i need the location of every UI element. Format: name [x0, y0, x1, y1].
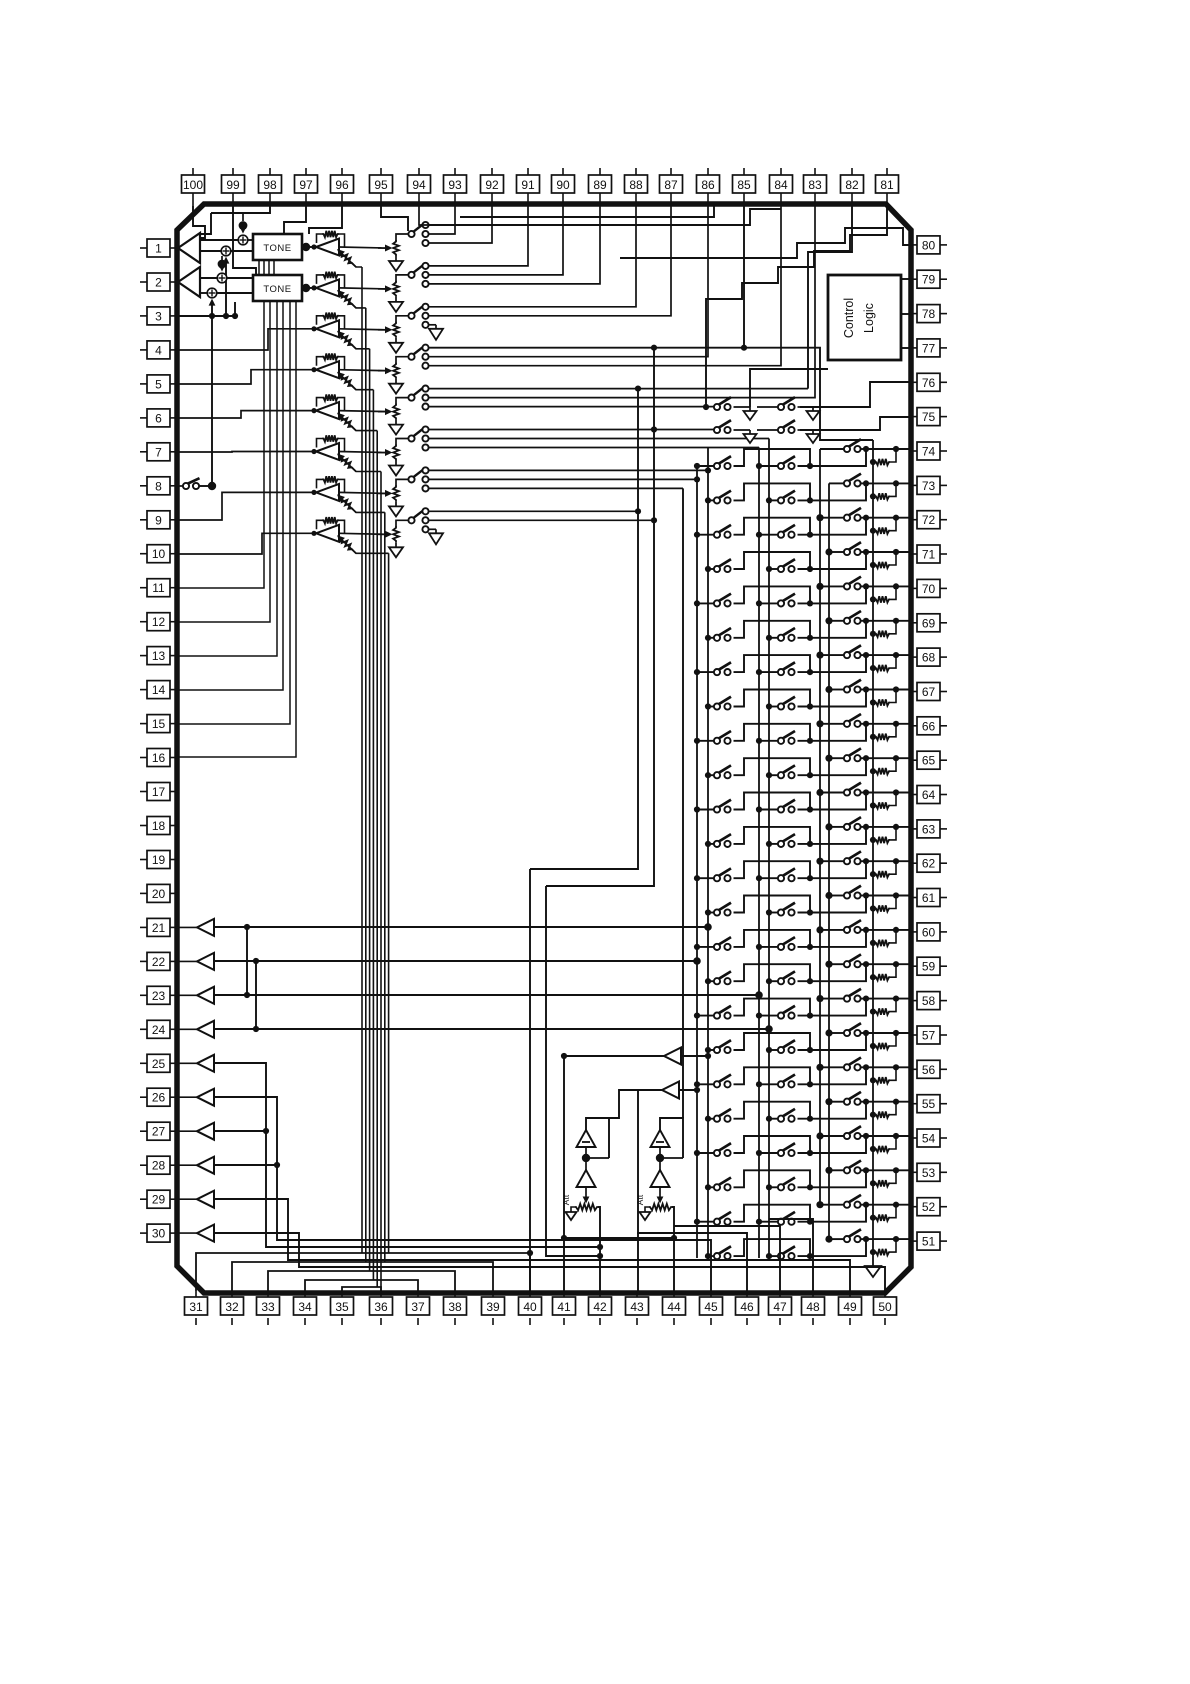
- junction col1/col2 row 63: [807, 841, 813, 847]
- svg-text:32: 32: [225, 1300, 239, 1314]
- wire col2 out row 63: [798, 827, 867, 844]
- switch col2 row 65: [778, 765, 795, 778]
- svg-text:2: 2: [155, 276, 162, 290]
- svg-text:5: 5: [155, 377, 162, 391]
- wire col2 out row 52: [798, 1205, 867, 1222]
- wire col3 out row 72: [861, 517, 867, 519]
- junction col1/col2 row 72: [807, 532, 813, 538]
- wire col3 left row 63: [829, 826, 844, 828]
- ground below pot strip 1: [389, 261, 403, 271]
- svg-text:62: 62: [922, 857, 936, 871]
- pin wire row 61: [866, 895, 909, 897]
- wire col2 out row 68: [798, 655, 867, 672]
- svg-text:77: 77: [922, 341, 936, 355]
- svg-text:74: 74: [922, 445, 936, 459]
- svg-text:21: 21: [152, 921, 166, 935]
- junction col3 bus row 54: [816, 1132, 823, 1139]
- strip 7 input junction: [311, 490, 316, 495]
- volume pot strip 8: [378, 520, 408, 547]
- selector strip 1: [408, 222, 428, 246]
- svg-text:86: 86: [701, 178, 715, 192]
- bus wire strip 1 drop: [361, 267, 363, 1253]
- junction col1/col2 row 67: [807, 703, 813, 709]
- svg-text:61: 61: [922, 891, 936, 905]
- bridge wire pin 31 to pin 40: [196, 1253, 530, 1291]
- matrix row 74 bus tap 2: [756, 463, 762, 469]
- wire col1 jog row 61: [734, 896, 811, 913]
- wire col3 out row 71: [861, 551, 867, 553]
- junction pin3/S4: [209, 313, 215, 319]
- wire bus to switch col2 row 53: [769, 1186, 778, 1188]
- junction resistor top row 74: [893, 446, 899, 452]
- pin wire row 72: [866, 517, 909, 519]
- wire col2 out row 69: [798, 621, 867, 638]
- wire strip 3 out: [339, 329, 385, 330]
- pin 3: [140, 307, 179, 325]
- matrix row 73 bus tap 1: [705, 497, 711, 503]
- pin wire row 58: [866, 998, 909, 1000]
- wire TONE1 out to strip 1: [302, 246, 316, 248]
- wire bus to switch col2 row 65: [769, 774, 778, 776]
- switch col2 row 54: [778, 1143, 795, 1156]
- svg-text:78: 78: [922, 307, 936, 321]
- wire col3 out row 53: [861, 1169, 867, 1171]
- wire strip2 contact a to pin 91: [429, 206, 528, 266]
- svg-text:3: 3: [155, 309, 162, 323]
- wire col3 out row 67: [861, 689, 867, 691]
- pin 67: [909, 683, 947, 701]
- switch col2 row 57: [778, 1040, 795, 1053]
- wire node V683 Att2 feed: [682, 488, 684, 1118]
- pin 10: [140, 545, 179, 563]
- junction col2/pin row 57: [863, 1030, 869, 1036]
- switch col3 row 54: [844, 1126, 861, 1139]
- wire col3 left row 72: [820, 517, 844, 519]
- svg-text:44: 44: [667, 1300, 681, 1314]
- junction pin24 riser: [253, 1026, 259, 1032]
- junction resistor top row 72: [893, 515, 899, 521]
- wire pin 15 tone control riser: [177, 301, 290, 724]
- wire pin95 to strip1 pole: [381, 206, 408, 231]
- junction col1/col2 row 68: [807, 669, 813, 675]
- pin wire row 62: [866, 860, 909, 862]
- pin 11: [140, 579, 179, 597]
- row T2 ground 1: [749, 430, 751, 434]
- wire bus to switch col1 row 61: [708, 912, 714, 914]
- pin 62: [909, 854, 947, 872]
- switch col1 row 58: [714, 1006, 731, 1019]
- wire col3 out row 58: [861, 998, 867, 1000]
- wire strip 4 out: [339, 370, 385, 371]
- svg-text:13: 13: [152, 649, 166, 663]
- wire col1 jog row 57: [734, 1033, 811, 1050]
- pin wire row 74: [866, 448, 909, 450]
- pin 59: [909, 957, 947, 975]
- pin 95: [370, 168, 393, 206]
- summing node S4: [207, 288, 217, 305]
- wire col1 jog row 58: [734, 999, 811, 1016]
- wire col3 left row 68: [820, 654, 844, 656]
- svg-text:76: 76: [922, 376, 936, 390]
- switch col3 row 62: [844, 851, 861, 864]
- switch col1 row 66: [714, 731, 731, 744]
- wire S4 bus to pin8 node: [211, 316, 213, 486]
- switch col2 row 59: [778, 971, 795, 984]
- row T1 switch 2: [778, 397, 813, 410]
- junction col3 bus row 61: [825, 892, 832, 899]
- wire pin input to strip 7: [177, 492, 314, 520]
- wire bus to switch col1 row 69: [708, 637, 714, 639]
- junction staircase/T1: [703, 404, 709, 410]
- bus wire strip 6 drop: [380, 472, 382, 1292]
- wire col3 left row 52: [820, 1204, 844, 1206]
- matrix row 73 bus tap 2: [766, 497, 772, 503]
- switch col1 row 74: [714, 456, 731, 469]
- pin 44: [663, 1291, 686, 1325]
- wire S1 to TONE1: [248, 239, 253, 241]
- wire col2 out row 64: [798, 793, 867, 810]
- pin 43: [626, 1291, 649, 1325]
- wire col1 jog row 59: [734, 964, 811, 981]
- junction col2/pin row 73: [863, 480, 869, 486]
- svg-text:50: 50: [878, 1300, 892, 1314]
- wire pin 21 to bus B: [214, 926, 708, 928]
- svg-text:87: 87: [664, 178, 678, 192]
- wire strip8 contact c to ground: [429, 528, 436, 530]
- junction resistor top row 69: [893, 618, 899, 624]
- wire Control Logic to pin 77: [901, 347, 909, 349]
- junction col1/col2 row 69: [807, 635, 813, 641]
- matrix row 51 bus tap 1: [705, 1253, 711, 1259]
- pin 47: [769, 1291, 792, 1325]
- wire bus to switch col2 row 58: [759, 1015, 778, 1017]
- wire col3 left row 62: [820, 860, 844, 862]
- wire col3 left row 59: [829, 963, 844, 965]
- bus D vertical: [768, 439, 770, 1259]
- ground below pot strip 2: [389, 302, 403, 312]
- junction col3 bus row 57: [825, 1029, 832, 1036]
- pin 8: [140, 477, 179, 495]
- wire pin 26 stub: [179, 1096, 197, 1098]
- pin 30: [140, 1224, 179, 1242]
- wire bus to switch col2 row 67: [769, 706, 778, 708]
- switch col1 row 63: [714, 834, 731, 847]
- amplifier strip 5: [316, 402, 339, 419]
- pin 29: [140, 1190, 179, 1208]
- junction col1/col2 row 70: [807, 600, 813, 606]
- pin 86: [697, 168, 720, 206]
- load resistor row 62: [870, 861, 896, 877]
- load resistor row 55: [870, 1102, 896, 1118]
- wire col1 jog row 73: [734, 483, 811, 500]
- wire bus to switch col1 row 63: [708, 843, 714, 845]
- wire S3 to A2: [200, 277, 217, 279]
- wire strip7 contact a to bus B: [429, 469, 708, 471]
- switch col1 row 52: [714, 1212, 731, 1225]
- wire col3 out row 55: [861, 1101, 867, 1103]
- junction TONE2 out: [302, 284, 310, 292]
- wire col3 out row 57: [861, 1032, 867, 1034]
- junction resistor top row 54: [893, 1133, 899, 1139]
- strip 5 input junction: [311, 408, 316, 413]
- junction resistor top row 63: [893, 824, 899, 830]
- switch col1 row 53: [714, 1178, 731, 1191]
- output buffer pin 23: [197, 987, 214, 1004]
- svg-text:48: 48: [806, 1300, 820, 1314]
- wire pin1 to A1: [177, 247, 178, 249]
- wire pin 11 tone control riser: [177, 301, 264, 588]
- pin 46: [736, 1291, 759, 1325]
- wire bus to switch col2 row 61: [769, 912, 778, 914]
- selector strip 2: [408, 263, 428, 287]
- wire bus to switch col1 row 70: [697, 602, 714, 604]
- bus E vertical (col3 even rows): [819, 449, 821, 1206]
- row T1 ground 1: [749, 407, 751, 411]
- wire strip 7 pot to bundle: [353, 509, 385, 512]
- switch col1 row 73: [714, 491, 731, 504]
- pin 83: [804, 168, 827, 206]
- switch col3 row 64: [844, 783, 861, 796]
- pin 98: [259, 168, 282, 206]
- svg-text:42: 42: [593, 1300, 607, 1314]
- wire bus to switch col1 row 74: [697, 465, 714, 467]
- svg-text:40: 40: [523, 1300, 537, 1314]
- TONE block 2: [253, 275, 302, 301]
- junction 530 bridge: [527, 1250, 533, 1256]
- TONE block 1: [253, 234, 302, 260]
- wire col3 out row 65: [861, 757, 867, 759]
- switch col2 row 64: [778, 800, 795, 813]
- svg-text:17: 17: [152, 785, 166, 799]
- junction col3 bus row 66: [816, 720, 823, 727]
- wire node V564: [563, 1056, 565, 1238]
- wire col2 out row 67: [798, 690, 867, 707]
- matrix row 69 bus tap 2: [766, 635, 772, 641]
- pin 17: [140, 783, 179, 801]
- pin 89: [589, 168, 612, 206]
- wire V563 to pin44 junction: [564, 1237, 674, 1239]
- load resistor row 60: [870, 930, 896, 946]
- pin 6: [140, 409, 179, 427]
- pin wire row 63: [866, 826, 909, 828]
- junction resistor top row 68: [893, 652, 899, 658]
- wire strip5 contact c to matrix row T1: [429, 406, 714, 408]
- wire riser 21-23: [246, 927, 248, 995]
- strip 1 input junction: [311, 244, 316, 249]
- pin 73: [909, 476, 947, 494]
- junction col3 bus row 59: [825, 961, 832, 968]
- wire col3 out row 64: [861, 792, 867, 794]
- wire col1 jog row 63: [734, 827, 811, 844]
- pin 69: [909, 614, 947, 632]
- Control Logic block: [828, 275, 901, 360]
- switch col3 row 66: [844, 714, 861, 727]
- switch col1 row 57: [714, 1040, 731, 1053]
- wire col2 out row 60: [798, 930, 867, 947]
- wire pin 29 stub: [179, 1198, 197, 1200]
- svg-text:20: 20: [152, 887, 166, 901]
- gain pot strip 2: [337, 290, 356, 308]
- output buffer B1: [664, 1048, 681, 1065]
- pin 26: [140, 1088, 179, 1106]
- feedback resistor strip 8: [317, 517, 345, 533]
- switch col1 row 70: [714, 594, 731, 607]
- feedback resistor strip 6: [317, 435, 345, 451]
- pin 34: [294, 1291, 317, 1325]
- svg-text:15: 15: [152, 717, 166, 731]
- wire col1 jog row 54: [734, 1136, 811, 1153]
- switch col3 row 71: [844, 542, 861, 555]
- junction Att1 out: [597, 1244, 603, 1250]
- svg-text:34: 34: [298, 1300, 312, 1314]
- junction pin22 riser: [253, 958, 259, 964]
- switch col2 row 66: [778, 731, 795, 744]
- gain pot strip 3: [337, 331, 356, 349]
- svg-text:51: 51: [922, 1235, 936, 1249]
- switch col2 row 51: [778, 1246, 795, 1259]
- pin 85: [733, 168, 756, 206]
- output buffer pin 28: [197, 1157, 214, 1174]
- pin 42: [589, 1291, 612, 1325]
- feedback resistor strip 3: [317, 313, 345, 329]
- wire col3 out row 74: [861, 448, 867, 450]
- svg-text:19: 19: [152, 853, 166, 867]
- pin 15: [140, 715, 179, 733]
- svg-text:46: 46: [740, 1300, 754, 1314]
- wire col2 out row 54: [798, 1136, 867, 1153]
- matrix row 74 bus tap 1: [694, 463, 700, 469]
- wire bus to switch col1 row 53: [708, 1186, 714, 1188]
- svg-text:55: 55: [922, 1097, 936, 1111]
- wire pin 13 tone control riser: [177, 301, 277, 656]
- wire strip6 contact a to matrix row T2: [429, 429, 714, 431]
- wire col3 left row 57: [829, 1032, 844, 1034]
- matrix row 70 bus tap 1: [694, 600, 700, 606]
- pin 52: [909, 1198, 947, 1216]
- wire bus to switch col2 row 63: [769, 843, 778, 845]
- junction resistor top row 52: [893, 1202, 899, 1208]
- wire strip7 contact c to Att2 feed: [429, 487, 683, 489]
- wire pin 24 to bus D: [214, 1028, 769, 1030]
- junction col3 bus row 64: [816, 789, 823, 796]
- svg-text:93: 93: [448, 178, 462, 192]
- wire bus to switch col1 row 60: [697, 946, 714, 948]
- switch col3 row 70: [844, 577, 861, 590]
- junction col3 bus row 51: [825, 1236, 832, 1243]
- output amplifier A1 (pin 1): [178, 233, 200, 263]
- junction col2/pin row 56: [863, 1064, 869, 1070]
- wire col3 left row 73: [829, 482, 844, 484]
- wire strip6 contact c to bus C: [429, 447, 759, 449]
- ground below pot strip 4: [389, 384, 403, 394]
- pin 99: [222, 168, 245, 206]
- svg-text:26: 26: [152, 1091, 166, 1105]
- junction col3 bus row 65: [825, 755, 832, 762]
- switch col3 row 55: [844, 1092, 861, 1105]
- wire bus to switch col2 row 68: [759, 671, 778, 673]
- volume pot strip 1: [378, 234, 408, 261]
- wire Att2 out: [672, 1207, 674, 1238]
- switch col1 row 59: [714, 971, 731, 984]
- wire pin 16 tone control riser: [177, 301, 296, 757]
- wire col2 out row 74: [798, 449, 867, 466]
- pin 77: [909, 339, 947, 357]
- junction pin22/bus A: [693, 957, 701, 965]
- switch col1 row 69: [714, 628, 731, 641]
- wire pin98 drop: [211, 206, 270, 213]
- switch col2 row 74: [778, 456, 795, 469]
- svg-text:69: 69: [922, 616, 936, 630]
- pin 94: [408, 168, 431, 206]
- wire col3 out row 62: [861, 860, 867, 862]
- wire strip1 contact b to pin 93: [429, 206, 455, 234]
- feedback resistor strip 2: [317, 272, 345, 288]
- pin wire row 68: [866, 654, 909, 656]
- volume pot strip 4: [378, 357, 408, 384]
- wire S2 to TONE1: [231, 250, 253, 252]
- pin 36: [370, 1291, 393, 1325]
- pin 56: [909, 1060, 947, 1078]
- svg-text:22: 22: [152, 955, 166, 969]
- switch col3 row 67: [844, 680, 861, 693]
- wire strip 1 out: [339, 247, 385, 248]
- gain pot strip 4: [337, 372, 356, 390]
- junction col1/col2 row 60: [807, 944, 813, 950]
- svg-text:72: 72: [922, 513, 936, 527]
- output buffer B2: [662, 1082, 679, 1099]
- junction col3 bus row 72: [816, 514, 823, 521]
- wire pin 21 stub: [179, 926, 197, 928]
- junction pins 26/28: [274, 1162, 280, 1168]
- junction T2/654: [651, 426, 657, 432]
- switch col3 row 56: [844, 1058, 861, 1071]
- svg-text:24: 24: [152, 1023, 166, 1037]
- svg-text:Att: Att: [635, 1194, 645, 1205]
- svg-text:9: 9: [155, 513, 162, 527]
- wire col1 jog row 52: [734, 1205, 811, 1222]
- pin 75: [909, 408, 947, 426]
- strip 2 input junction: [311, 285, 316, 290]
- pin 41: [553, 1291, 576, 1325]
- wire strip3 contact b to pin 87: [429, 206, 671, 316]
- pin 19: [140, 851, 179, 869]
- strip 6 input junction: [311, 449, 316, 454]
- wire col3 left row 54: [820, 1135, 844, 1137]
- wire S4 from pin3 bus: [211, 305, 213, 316]
- pin 65: [909, 751, 947, 769]
- attenuator Att1 node: [585, 1147, 587, 1154]
- svg-text:57: 57: [922, 1029, 936, 1043]
- ground below pot strip 5: [389, 425, 403, 435]
- wire col3 out row 56: [861, 1066, 867, 1068]
- wire bus to switch col1 row 72: [697, 534, 714, 536]
- pin 40: [519, 1291, 542, 1325]
- junction col2/pin row 69: [863, 618, 869, 624]
- wire bus to switch col2 row 73: [769, 499, 778, 501]
- wire pin 29 route to pin 49: [214, 1199, 850, 1291]
- switch col2 row 62: [778, 868, 795, 881]
- bridge wire pin 32 to pin 39: [232, 1262, 493, 1291]
- wire pin96 drop to TONE1: [309, 206, 342, 234]
- wire bus to switch col1 row 54: [697, 1152, 714, 1154]
- junction s4a/654: [651, 345, 657, 351]
- pin 58: [909, 992, 947, 1010]
- wire col2 out row 59: [798, 964, 867, 981]
- bus wire strip 3 drop: [369, 349, 371, 1271]
- pin 72: [909, 511, 947, 529]
- pin wire row 55: [866, 1101, 909, 1103]
- wire pin input to strip 5: [177, 411, 314, 418]
